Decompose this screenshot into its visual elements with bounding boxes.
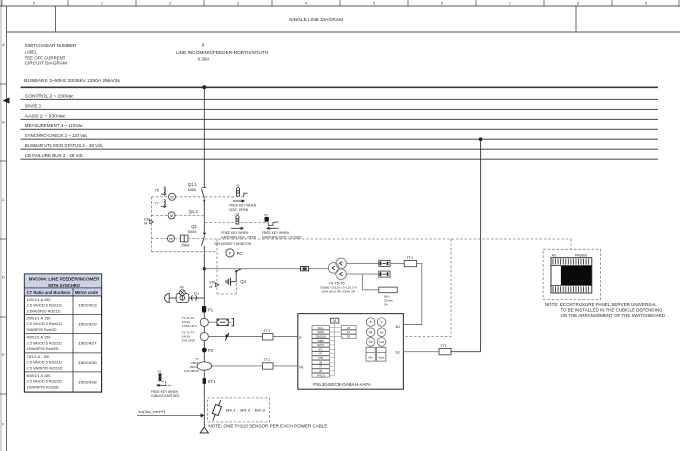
relay energy meters	[366, 347, 375, 361]
svg-text:SF6 DENSITY MONITOR: SF6 DENSITY MONITOR	[214, 242, 251, 246]
node busbar tap junction	[202, 85, 206, 89]
svg-text:2,5VA cl0,5: 2,5VA cl0,5	[182, 324, 197, 328]
current transformer T1-T2-T3 core2	[200, 332, 208, 340]
svg-text:67N: 67N	[318, 356, 323, 360]
svg-text:2.5 VA/Cl0.5 Rct≤1Ω: 2.5 VA/Cl0.5 Rct≤1Ω	[27, 303, 62, 308]
resistor RA1	[379, 287, 397, 293]
svg-text:81: 81	[347, 334, 350, 338]
svg-text:50/51: 50/51	[317, 330, 324, 334]
svg-text:50BF: 50BF	[317, 339, 324, 343]
arrow key X5	[270, 227, 279, 229]
terminal P1	[202, 306, 206, 312]
test block on CT1	[217, 319, 228, 326]
svg-text:Q1.1: Q1.1	[188, 182, 198, 187]
svg-text:PAS600: PAS600	[575, 253, 587, 257]
svg-text:TT1: TT1	[264, 358, 270, 362]
svg-text:ST1: ST1	[208, 379, 216, 384]
CT table row 2	[24, 313, 101, 315]
svg-text:P2: P2	[208, 348, 214, 353]
svg-text:P1: P1	[208, 308, 214, 313]
svg-text:1x(3x_mm²): 1x(3x_mm²)	[138, 409, 166, 414]
svg-text:B4.1 - B4.2 - B4.3: B4.1 - B4.2 - B4.3	[226, 408, 266, 413]
svg-text:FREE KEY WHEN: FREE KEY WHEN	[151, 390, 178, 394]
svg-text:4: 4	[305, 2, 307, 6]
svg-text:1VA 10P10: 1VA 10P10	[184, 369, 199, 373]
svg-text:XVA 5P20: XVA 5P20	[182, 338, 196, 342]
fuse block 25kA	[180, 235, 188, 242]
arrow key X1 free direction	[233, 200, 242, 202]
busbar	[21, 86, 659, 88]
svg-text:1: 1	[101, 2, 103, 6]
svg-text:X3: X3	[157, 369, 161, 373]
svg-text:1502428: 1502428	[78, 379, 97, 384]
wire main feeder middle	[203, 201, 205, 233]
motor M1	[169, 193, 176, 200]
svg-text:74TCS: 74TCS	[317, 373, 326, 377]
motor M2	[168, 212, 175, 219]
PAS600 dashed box	[543, 249, 600, 299]
svg-text:5A: 5A	[384, 302, 388, 306]
svg-text:TT1: TT1	[264, 329, 270, 333]
fuse inline on VT branch	[301, 267, 309, 271]
wire dashed long interlock rail	[205, 238, 571, 240]
svg-text:50N/51N: 50N/51N	[315, 334, 326, 338]
wire VT secondary bottom	[346, 273, 378, 275]
svg-text:CONTROL 2 ~ 230Vac: CONTROL 2 ~ 230Vac	[25, 93, 75, 98]
svg-text:0: 0	[33, 2, 35, 6]
svg-text:LINE INCOMING/FEEDER-NORTH/SOU: LINE INCOMING/FEEDER-NORTH/SOUTH	[176, 50, 269, 55]
protection relay PSL30 box	[298, 314, 404, 390]
svg-text:PSL30-EECB-GABAH-AAFA: PSL30-EECB-GABAH-AAFA	[313, 382, 372, 387]
wire to TT1	[390, 262, 404, 264]
pressure gauge P	[226, 249, 234, 257]
left ruler ticks and row letters	[0, 83, 7, 85]
svg-text:X: X	[201, 42, 204, 47]
svg-text:25kA: 25kA	[181, 244, 190, 248]
wire dashed interlock to key X1	[205, 196, 235, 198]
CT selection table	[24, 274, 101, 392]
svg-text:5: 5	[373, 2, 375, 6]
wire main feeder lower	[203, 246, 205, 306]
svg-text:15VA/5P20 Rct≤5Ω: 15VA/5P20 Rct≤5Ω	[27, 346, 59, 351]
wire CT2 secondary to relay E	[208, 336, 262, 338]
wire drop to resistor RA1	[362, 274, 378, 290]
svg-text:1502423: 1502423	[78, 303, 97, 308]
wire dashed bottom link	[151, 251, 217, 253]
wire dashed motor group left rail	[150, 197, 152, 252]
svg-text:PC: PC	[237, 251, 243, 256]
svg-text:6.30A: 6.30A	[198, 56, 210, 61]
svg-text:3T1: 3T1	[194, 292, 200, 296]
voltage transformer T4-T5-T6	[328, 263, 339, 274]
svg-text:25: 25	[319, 369, 322, 373]
svg-text:27: 27	[347, 330, 350, 334]
svg-text:27: 27	[319, 365, 322, 369]
svg-text:15VA/5P20 Rct≤6Ω: 15VA/5P20 Rct≤6Ω	[27, 384, 59, 389]
wire main feeder upper	[203, 87, 205, 188]
svg-text:IN: IN	[299, 365, 303, 369]
svg-text:CB FAILURE BUS 3 - 48 Vdc: CB FAILURE BUS 3 - 48 Vdc	[25, 153, 84, 158]
node synchro bus tap	[479, 137, 483, 141]
svg-text:MESA code: MESA code	[75, 290, 99, 295]
earthing switch Q2 blade	[201, 236, 204, 246]
relay M box	[331, 318, 339, 323]
svg-text:MEASUREMENT 4 ~ 110Vac: MEASUREMENT 4 ~ 110Vac	[25, 123, 84, 128]
three-position indicator chevron	[203, 199, 205, 202]
svg-text:2.5 VA/Cl0.5 Rct≤1Ω: 2.5 VA/Cl0.5 Rct≤1Ω	[27, 360, 62, 365]
node feeder VT tap	[203, 267, 206, 270]
svg-text:67: 67	[319, 352, 322, 356]
core balance CT T7	[197, 362, 211, 370]
svg-text:cosφ: cosφ	[379, 341, 385, 344]
motor M3	[167, 235, 174, 242]
svg-text:FREE KEY WHEN: FREE KEY WHEN	[262, 231, 289, 235]
svg-text:2: 2	[169, 2, 171, 6]
svg-text:M: M	[209, 285, 212, 289]
svg-text:M: M	[169, 237, 172, 241]
wire dashed drop to PAS600	[570, 239, 572, 249]
svg-text:3U: 3U	[395, 325, 400, 329]
svg-text:25: 25	[347, 326, 350, 330]
disconnector Q1.1 blade	[201, 189, 204, 199]
svg-text:X5: X5	[264, 213, 268, 217]
svg-text:7: 7	[509, 2, 511, 6]
svg-text:ON THE ARRANGEMENT OF THE SWIT: ON THE ARRANGEMENT OF THE SWITCHBOARD	[561, 313, 666, 318]
svg-text:400/1/1 A 150: 400/1/1 A 150	[27, 335, 52, 340]
svg-text:630A: 630A	[188, 230, 197, 234]
arrow key X4	[231, 227, 241, 229]
svg-text:2.5 VA/Cl0.5 Rct≤2Ω: 2.5 VA/Cl0.5 Rct≤2Ω	[27, 340, 62, 345]
svg-text:Varh: Varh	[378, 355, 384, 359]
wire relay 1U to synchro bus	[403, 351, 439, 353]
sensor TH110	[213, 400, 221, 420]
svg-text:TT1: TT1	[440, 344, 446, 348]
wire VT branch horizontal	[204, 268, 328, 270]
svg-text:SOTF: SOTF	[317, 343, 325, 347]
relay right function boxes	[341, 326, 356, 330]
svg-text:D: D	[2, 276, 5, 280]
title block band	[7, 31, 680, 33]
CT table row 3	[24, 333, 101, 335]
svg-text:8: 8	[577, 2, 579, 6]
wire dashed to motor M3	[151, 238, 167, 240]
svg-text:2.5VA/5P20 Rct≤1Ω: 2.5VA/5P20 Rct≤1Ω	[27, 308, 61, 313]
svg-text:BUSBAR VTs MCB STATUS 2 - 48 V: BUSBAR VTs MCB STATUS 2 - 48 Vdc	[25, 143, 104, 148]
svg-text:Hz: Hz	[369, 340, 373, 344]
svg-text:TT1: TT1	[407, 256, 413, 260]
svg-text:Q4: Q4	[240, 279, 246, 284]
svg-text:87L: 87L	[318, 347, 323, 351]
disconnect arrow symbol	[225, 333, 229, 341]
svg-text:59: 59	[319, 360, 322, 364]
current transformer T1-T2-T3 core1	[200, 318, 208, 326]
terminal ST1	[203, 378, 206, 384]
svg-text:CABLES EARTHED: CABLES EARTHED	[151, 394, 180, 398]
svg-text:9: 9	[645, 2, 647, 6]
svg-text:1U: 1U	[395, 350, 400, 354]
svg-text:SPARE 3: SPARE 3	[25, 103, 41, 108]
svg-text:Y7: Y7	[155, 202, 159, 206]
svg-text:W: W	[369, 330, 372, 334]
mechanism dashed enclosure	[216, 239, 218, 294]
svg-text:600/1/1 A 150: 600/1/1 A 150	[27, 373, 52, 378]
svg-text:Q2: Q2	[191, 224, 197, 229]
svg-text:1502427: 1502427	[78, 341, 97, 346]
top ruler ticks and numbers	[1, 0, 3, 6]
svg-text:TEE OFF CURRENT: TEE OFF CURRENT	[25, 55, 66, 60]
svg-text:CT Ratio and Burdens: CT Ratio and Burdens	[27, 290, 71, 295]
border frame left line	[6, 6, 8, 451]
svg-text:AS: AS	[552, 253, 557, 257]
svg-text:C: C	[2, 198, 5, 202]
svg-text:75/1/1 A ; 150: 75/1/1 A ; 150	[27, 354, 51, 359]
svg-text:M: M	[144, 222, 147, 226]
svg-text:2.5 VA/Cl0.5 Rct≤2Ω: 2.5 VA/Cl0.5 Rct≤2Ω	[27, 379, 62, 384]
svg-text:100/1/1 A 150: 100/1/1 A 150	[27, 297, 52, 302]
svg-text:Var: Var	[380, 331, 384, 334]
wire dashed to motor M2	[151, 214, 168, 216]
svg-text:2.5 VA/5P20 Rct≤1Ω: 2.5 VA/5P20 Rct≤1Ω	[27, 365, 63, 370]
switch Q4 manual drive symbol	[229, 278, 231, 286]
svg-text:Q1.2: Q1.2	[189, 209, 199, 214]
terminal P2	[202, 348, 207, 353]
svg-text:21FL: 21FL	[318, 326, 325, 330]
svg-text:M: M	[170, 195, 173, 199]
cubicle dashed boundary	[404, 239, 451, 337]
left centering arrow mark	[3, 97, 10, 103]
svg-text:SINGLE LINE DIAGRAM: SINGLE LINE DIAGRAM	[289, 17, 343, 22]
svg-text:NOTE: ONE TH110 SENSOR PER EAC: NOTE: ONE TH110 SENSOR PER EACH POWER CA…	[208, 424, 327, 429]
CT table row 5	[24, 371, 101, 373]
wire CBCT secondary to relay IN	[212, 365, 263, 367]
svg-text:MVC004: LINE FEEDER/INCOMER: MVC004: LINE FEEDER/INCOMER	[29, 276, 100, 281]
svg-text:BUSBARS 3~50Hz 33/36kV 1250A 2: BUSBARS 3~50Hz 33/36kV 1250A 25kA/3s	[24, 78, 121, 83]
svg-text:1502430: 1502430	[78, 360, 98, 365]
relay function column	[312, 326, 330, 330]
svg-text:630A: 630A	[188, 188, 197, 192]
svg-text:M: M	[170, 214, 173, 218]
svg-text:3: 3	[237, 2, 239, 6]
svg-text:TO BE INSTALLED IN THE CUBICLE: TO BE INSTALLED IN THE CUBICLE DEPENDING	[561, 308, 663, 313]
border frame paper edge	[0, 0, 2, 451]
arrow key X3	[160, 384, 167, 386]
TH110 sensor dashed box	[208, 398, 270, 422]
svg-text:Wh: Wh	[368, 355, 373, 359]
svg-text:WITH SYNCHRO: WITH SYNCHRO	[48, 283, 80, 288]
svg-text:E: E	[299, 336, 302, 340]
earthing switch Q2 contact mark	[203, 233, 206, 236]
svg-text:2.5 VA/Cl0.5 Rct≤1Ω: 2.5 VA/Cl0.5 Rct≤1Ω	[27, 321, 62, 326]
border frame top ruler line	[0, 5, 680, 7]
svg-text:NOTE: ECOSTRUXURE PANEL SERVER: NOTE: ECOSTRUXURE PANEL SERVER UNIVERSAL	[545, 302, 658, 307]
svg-text:M: M	[333, 319, 336, 323]
svg-text:SWITCHGEAR NUMBER: SWITCHGEAR NUMBER	[25, 43, 77, 48]
MCB fuse secondary 2	[379, 271, 390, 277]
svg-text:SYNCHRO-CHECK 2 ~ 110 Vac: SYNCHRO-CHECK 2 ~ 110 Vac	[25, 133, 88, 138]
wire CT1 secondary	[208, 321, 217, 323]
cable termination triangle	[200, 427, 208, 433]
svg-text:CIRCUIT DIAGRAM: CIRCUIT DIAGRAM	[25, 61, 68, 66]
svg-text:5VA cl0,5 3P, 25VA 3P: 5VA cl0,5 3P, 25VA 3P	[322, 289, 355, 293]
wire TT1 to relay 3U	[403, 263, 421, 324]
PAS600 device	[551, 258, 592, 293]
svg-text:Y5: Y5	[155, 189, 159, 193]
svg-text:LABEL: LABEL	[25, 50, 38, 55]
svg-text:AASS 2 ~ 230Vac: AASS 2 ~ 230Vac	[25, 113, 67, 118]
svg-text:6: 6	[441, 2, 443, 6]
CT table row 4	[24, 352, 101, 354]
svg-text:5VA/5P20 Rct≤2Ω: 5VA/5P20 Rct≤2Ω	[27, 327, 57, 332]
MCB fuse secondary 1	[379, 260, 390, 266]
CT table row 1	[24, 295, 101, 297]
wire cable feeder	[137, 415, 201, 417]
relay meters	[366, 318, 375, 327]
svg-text:FREE KEY WHEN: FREE KEY WHEN	[221, 231, 248, 235]
wire VT secondary top	[346, 262, 378, 264]
svg-text:FREE KEY WHEN: FREE KEY WHEN	[229, 204, 256, 208]
svg-text:200/1/1 A 150: 200/1/1 A 150	[27, 316, 52, 321]
svg-text:1502429: 1502429	[78, 321, 97, 326]
wire dashed to motor M1	[151, 196, 168, 198]
switch Q4 blade	[235, 270, 237, 272]
svg-text:X1: X1	[236, 184, 240, 188]
wire dashed interlock to keys X4 X5	[205, 222, 234, 224]
